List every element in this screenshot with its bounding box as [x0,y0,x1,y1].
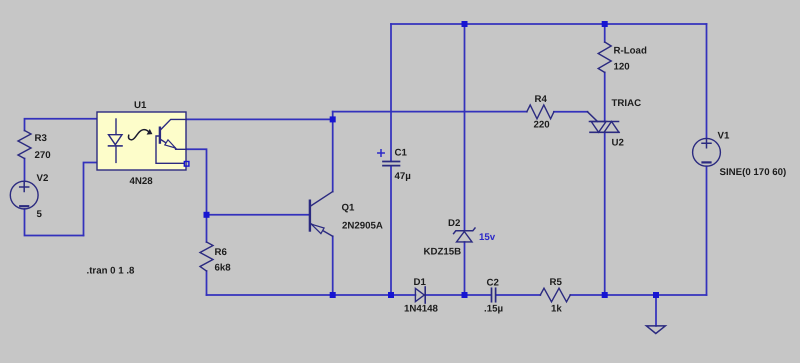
wire V2 bottom to corner [25,209,84,236]
svg-text:15v: 15v [479,232,496,243]
capacitor C2 [491,288,493,301]
triac U2 [590,121,619,123]
resistor R-Load [598,42,611,72]
wire top rail [391,23,707,25]
svg-text:D2: D2 [448,218,460,229]
svg-text:C1: C1 [395,148,408,159]
svg-text:2N2905A: 2N2905A [342,221,383,232]
node junction Q1 base [204,212,210,218]
wire C1 bottom [390,166,392,295]
transistor Q1 collector [310,192,333,207]
opto phototransistor collector [160,119,186,130]
svg-text:Q1: Q1 [342,203,356,214]
svg-text:47µ: 47µ [395,171,411,182]
wire vertical node to Q1 collector [332,112,334,192]
node junction Q1 emitter rail [330,292,336,298]
svg-text:270: 270 [35,150,51,161]
wire rail to D2 [464,24,466,231]
voltage source V2 [10,181,38,209]
wire up to opto pin2 [84,163,117,236]
transistor Q1 emitter with arrow [310,223,333,236]
svg-text:V1: V1 [718,131,730,142]
node junction C1 rail [388,292,394,298]
wire rail C2 to R5 [496,294,540,296]
svg-text:C2: C2 [487,278,499,289]
svg-text:.tran 0 1 .8: .tran 0 1 .8 [87,266,136,277]
wire node to R6 top [206,215,208,242]
wire R6 bottom to rail [206,271,208,295]
wire R-Load to triac [604,72,606,121]
svg-text:D1: D1 [414,277,427,288]
svg-text:4N28: 4N28 [130,176,154,187]
capacitor C1 [383,161,400,163]
wire V1 top [706,24,708,138]
opto-isolator U1 body [97,112,186,170]
svg-text:V2: V2 [37,173,49,184]
svg-text:6k8: 6k8 [215,263,232,274]
opto phototransistor emitter [160,139,167,143]
wire rail D1 to D2 node [425,294,491,296]
wire ground stub [655,295,657,326]
wire top-left from R3 to opto pin1 [25,119,117,131]
resistor R6 [200,242,213,271]
triac gate lead [588,112,598,122]
zener diode D2 [457,232,473,242]
opto base lead to pin6 [156,136,184,163]
node junction opto-collector corner [330,116,336,122]
node junction top rail D2 [462,21,468,27]
svg-text:1N4148: 1N4148 [404,304,439,315]
svg-text:R6: R6 [215,247,228,258]
node junction D2 rail [462,292,468,298]
svg-text:U1: U1 [134,100,147,111]
wire opto collector to node [186,118,333,120]
wire C1 top [390,24,392,161]
wire opto emitter to Q1 base node [186,149,207,215]
wire bottom rail left segment [207,294,416,296]
wire Q1 emitter down [332,236,334,295]
opto pin6 open square [184,162,189,167]
wire rail R5 to V1 [570,294,706,296]
opto LED pin2 lead [115,146,117,162]
svg-text:U2: U2 [612,138,624,149]
wire V1 bottom [706,166,708,295]
svg-text:R4: R4 [535,94,548,105]
opto LED triangle [109,135,123,145]
wire triac to rail [604,132,606,295]
opto photon squiggle arrow [129,130,149,140]
svg-text:R-Load: R-Load [614,46,647,57]
node junction ground rail [653,292,659,298]
wire R4 right to triac gate [554,111,588,113]
resistor R5 [540,288,570,302]
wire R3 bottom to V2 top [24,159,26,182]
opto LED cathode bar [109,145,123,147]
svg-text:R3: R3 [35,133,48,144]
node junction triac rail [602,292,608,298]
wire D2 to rail [464,242,466,295]
svg-text:1k: 1k [551,304,562,315]
ground [646,326,665,334]
opto LED D pin1 lead [115,119,117,134]
C1 plus mark [378,150,384,156]
wire Q1 base [207,214,310,216]
resistor R3 [18,131,31,159]
svg-text:TRIAC: TRIAC [612,98,642,109]
resistor R4 [527,105,554,119]
svg-text:.15µ: .15µ [484,304,503,315]
diode D1 [415,288,424,301]
transistor Q1 base bar [309,201,311,231]
wire node to R4 left [333,111,527,113]
svg-text:5: 5 [37,209,43,220]
svg-text:220: 220 [534,120,550,131]
wire rail to R-Load [604,24,606,42]
opto phototransistor base bar [159,128,161,143]
node junction top rail R-Load [602,21,608,27]
svg-text:KDZ15B: KDZ15B [424,247,462,258]
svg-text:SINE(0 170 60): SINE(0 170 60) [720,167,787,178]
svg-text:120: 120 [614,62,630,73]
voltage source V1 [693,138,721,166]
svg-text:R5: R5 [550,277,563,288]
